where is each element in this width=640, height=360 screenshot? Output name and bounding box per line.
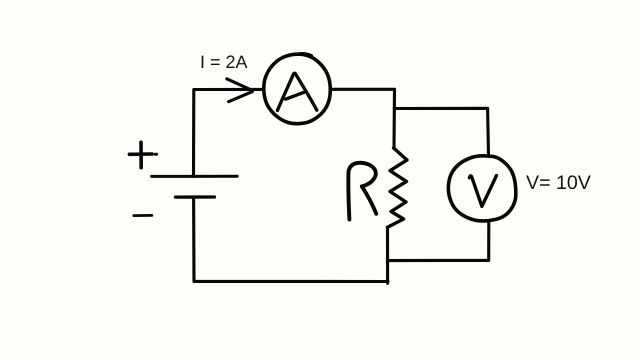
wire voltmeter bottom (487, 221, 490, 261)
ammeter U1 circle (264, 54, 330, 124)
resistor R1 zigzag (388, 148, 408, 227)
ammeter letter A (277, 73, 316, 110)
voltmeter U2 circle (448, 156, 516, 221)
wire branch to voltmeter top (394, 108, 488, 156)
wire resistor bottom down (386, 227, 389, 283)
current arrow (227, 79, 253, 102)
minus sign (134, 214, 152, 217)
resistor label R (348, 163, 376, 220)
svg-text:I = 2A: I = 2A (200, 52, 248, 72)
svg-text:V= 10V: V= 10V (526, 172, 591, 194)
wire node down to resistor top (392, 89, 396, 148)
wire mid horizontal resistor-to-voltmeter (388, 259, 489, 262)
wire bottom return (194, 198, 388, 282)
wire battery top vertical + top-left horizontal (194, 89, 263, 176)
battery B1 long plate (152, 175, 238, 178)
voltmeter letter V (469, 176, 496, 207)
plus dot (155, 153, 156, 156)
battery B1 short plate (176, 195, 215, 198)
wire ammeter to node (332, 88, 395, 91)
plus sign (129, 142, 152, 167)
